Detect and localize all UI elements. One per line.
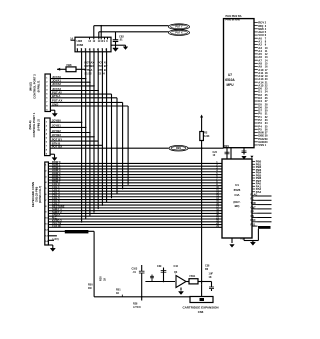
junction C103/rail [141, 296, 143, 298]
svg-text:3.3K: 3.3K [204, 134, 210, 138]
net flag phi2 [169, 145, 188, 151]
ground below keyboard connector [48, 244, 52, 246]
wire RES long net [50, 147, 168, 149]
U28 top pin ticks and numbers [90, 37, 108, 39]
wire bundle POT/JOY verticals from U28 [82, 52, 107, 223]
svg-text:CS: CS [251, 215, 255, 218]
wire +5V from keyboard [48, 230, 94, 232]
svg-text:CLK IN: CLK IN [52, 224, 61, 228]
svg-text:BTN A: BTN A [52, 94, 60, 98]
junction FB11/RES [201, 281, 203, 283]
ground at bar net [252, 241, 254, 243]
capacitor C44 at Q3 base [163, 268, 165, 282]
svg-text:CIA: CIA [234, 193, 240, 197]
wire long vertical RES to reset circuit [201, 148, 203, 285]
svg-text:FLAG: FLAG [251, 193, 258, 196]
label row S1 S2 S3 [85, 71, 106, 75]
ground below Q3 [180, 288, 182, 291]
wire GND port2 to bus [50, 105, 128, 107]
junction tick on +5V rail [121, 295, 123, 297]
ferrite bead FB8 [57, 68, 66, 70]
svg-text:CNT: CNT [251, 206, 257, 209]
wire U28 pin stub to POT Y line [100, 26, 102, 38]
svg-text:R38: R38 [100, 276, 103, 281]
resistor R2 3.3K pullup [201, 118, 203, 132]
svg-text:(9 PIN) J2: (9 PIN) J2 [36, 119, 40, 131]
connector CN9 CONTROL PORT 2 [45, 74, 50, 112]
svg-text:4066: 4066 [77, 43, 84, 47]
svg-text:SP: SP [251, 211, 255, 214]
svg-text:RES: RES [224, 145, 229, 148]
wire BTN B [50, 144, 102, 146]
wire phi2 flag to MPU RES pin [188, 147, 224, 149]
capacitor C82 [115, 32, 117, 40]
svg-text:U1: U1 [235, 183, 239, 187]
svg-text:PHI0 IN R/W: PHI0 IN R/W [226, 19, 241, 22]
wire R2 to RES junction [201, 141, 203, 149]
pin labels CONTROL PORT 2 [52, 75, 62, 106]
svg-text:GND: GND [52, 102, 58, 106]
wire POT Y net to U28 [94, 25, 169, 27]
svg-text:CARTRIDGE EXPANSION: CARTRIDGE EXPANSION [182, 306, 218, 310]
wire POT AX to bus [50, 101, 122, 103]
transistor Q3 reset driver [145, 281, 175, 283]
U1 lower-right stub rows [252, 196, 272, 226]
connector CN1 KEYBOARD [45, 162, 49, 245]
svg-text:VSS: VSS [258, 143, 264, 147]
wire POT BY [50, 140, 98, 142]
U28 bottom pin numbers and stubs [76, 48, 107, 51]
svg-text:BD): BD) [235, 204, 240, 208]
wire JOYB1 [50, 126, 86, 128]
svg-text:POT Y: POT Y [175, 26, 183, 29]
labels C104 R6 [205, 265, 214, 280]
U1 left pin ticks [219, 163, 222, 227]
capacitor C25 stub [243, 148, 245, 155]
CPU U7 6510A MPU [224, 19, 255, 148]
svg-text:6526: 6526 [234, 188, 241, 192]
capacitor C24 at U7 bottom [226, 148, 228, 159]
ground at C25 [242, 156, 246, 159]
svg-text:A TO 8: A TO 8 [133, 306, 141, 309]
wire RES vertical into cartridge box [201, 285, 203, 297]
wire +5V rail down-right [94, 296, 166, 298]
label row BTN A BTN B [85, 68, 106, 72]
svg-text:R2: R2 [204, 131, 208, 135]
capacitor C103 [141, 265, 143, 271]
pin labels CONTROL PORT 1 [52, 119, 63, 149]
wire POT X net to U28 [99, 31, 169, 33]
wire JOYA2 [50, 85, 94, 87]
svg-text:CN1 (20 PIN): CN1 (20 PIN) [34, 187, 38, 203]
junction base [163, 281, 165, 283]
U1 top pin triangle [250, 156, 253, 159]
net flag POT Y [169, 24, 190, 30]
label row POT BX POT BY [85, 64, 108, 68]
ground below CONTROL PORT 2 [50, 109, 54, 111]
svg-text:POT BX: POT BX [52, 145, 63, 149]
wire JOYB2 [50, 132, 90, 134]
wire JOYA1 [50, 81, 90, 83]
U1 right side pins PB0-PB7 [252, 162, 255, 192]
svg-text:6510A: 6510A [225, 78, 235, 82]
keyboard bus lines to U1 [48, 163, 222, 227]
U28 pin 14 stub [71, 39, 76, 41]
wire C103 down [141, 297, 143, 301]
wire POT AY to bus [50, 93, 111, 95]
capacitor C39 stub [151, 275, 153, 282]
svg-text:CONTROL PORT 2: CONTROL PORT 2 [33, 74, 37, 99]
svg-text:C44: C44 [174, 265, 179, 268]
U1 right pin labels [256, 160, 262, 194]
svg-text:1K: 1K [104, 278, 107, 281]
svg-text:FB8: FB8 [67, 63, 72, 67]
ground below CONTROL PORT 1 [50, 153, 54, 155]
wire FB8 to POT bus [76, 68, 86, 70]
svg-text:JOYB1: JOYB1 [52, 124, 62, 128]
connector cartridge expansion [190, 297, 213, 303]
label PHI0 IN above U7 [226, 15, 242, 22]
wire JOYA0 [50, 78, 85, 80]
wire U1 bottom pin to bar net [243, 238, 245, 241]
svg-text:PC: PC [251, 198, 255, 201]
wire rail to cartridge box [167, 296, 191, 298]
wire keyboard pin stub (+5V) [48, 235, 57, 237]
svg-text:1K: 1K [209, 276, 212, 279]
connector CN8 CONTROL PORT 1 [45, 118, 51, 156]
svg-text:1M: 1M [88, 287, 91, 290]
svg-text:S3 S4: S3 S4 [98, 71, 106, 75]
svg-text:POT X: POT X [175, 32, 183, 35]
svg-text:BTN B: BTN B [98, 68, 106, 72]
svg-text:(9 PIN) J1: (9 PIN) J1 [37, 80, 41, 92]
svg-text:(ROW0-COL7): (ROW0-COL7) [38, 186, 42, 203]
svg-text:JOYA2: JOYA2 [52, 82, 61, 86]
junction on POT Y line [100, 25, 102, 27]
ground at U28 pin 13 [125, 45, 127, 47]
ground below C82 [113, 48, 119, 51]
wire FB11 to RES vertical [198, 281, 212, 283]
wire JOYA3 [50, 90, 98, 92]
svg-text:1K: 1K [116, 292, 119, 295]
svg-text:RES: RES [176, 147, 181, 150]
wire from bar down [257, 229, 259, 241]
wire U28 pin 13 right [111, 44, 126, 46]
keyboard bus labels [52, 160, 65, 228]
wire JOYB3 [50, 136, 94, 138]
label row POT AX POT AY [85, 61, 108, 65]
wire +5V down to reset circuit [93, 231, 95, 296]
svg-text:RS1: RS1 [251, 224, 256, 227]
svg-text:RS0: RS0 [251, 219, 256, 222]
U1 left pin numbers [216, 161, 219, 228]
U7 right side pins [254, 23, 258, 145]
svg-text:(KEY-: (KEY- [233, 200, 240, 204]
svg-text:TOD: TOD [240, 239, 245, 241]
wire U7 phi stub [230, 148, 232, 159]
ground below U1 [230, 245, 234, 248]
svg-text:FB11: FB11 [190, 275, 196, 278]
capacitor C104 stub [211, 282, 213, 288]
ferrite bead FB11 [189, 279, 198, 284]
svg-text:C39: C39 [157, 265, 162, 268]
analog switch U28 4066 [75, 37, 111, 52]
filled net bar at U1 [258, 226, 271, 229]
junction R2/vertical [201, 147, 203, 149]
svg-text:CN6: CN6 [198, 310, 204, 314]
wire JOYB0 [50, 121, 82, 123]
svg-text:CONTROL PORT 1: CONTROL PORT 1 [32, 112, 36, 137]
U7 right pin labels [258, 21, 268, 147]
U1 lower-right stub labels [251, 193, 258, 226]
CIA U1 6526 keyboard interface [222, 159, 252, 238]
net flag POT X [169, 30, 190, 36]
wire U1 bottom stub [231, 238, 233, 243]
svg-text:.01: .01 [119, 38, 123, 42]
svg-text:JOYB0: JOYB0 [52, 119, 62, 123]
svg-text:KEYBOARD CONN: KEYBOARD CONN [31, 182, 35, 207]
wire keyboard pin stub GND [48, 239, 54, 241]
svg-text:MPU: MPU [226, 83, 234, 87]
wire BTN A to bus [50, 97, 117, 99]
svg-text:TOD: TOD [251, 202, 256, 205]
svg-text:U7: U7 [228, 73, 232, 77]
